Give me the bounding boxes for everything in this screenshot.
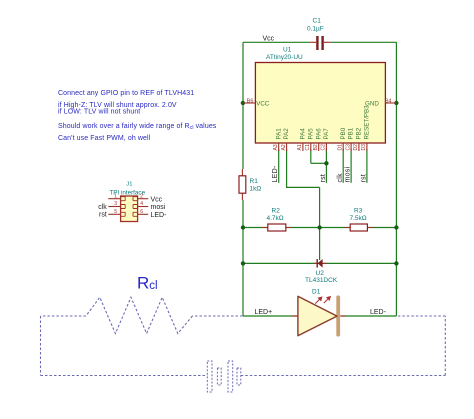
- D1 emission arrow 2: [324, 297, 331, 304]
- junction right R2 row: [394, 225, 398, 229]
- junction right TL431 row: [394, 261, 398, 265]
- wire top horizontal right of C1: [331, 41, 397, 43]
- svg-text:VCC: VCC: [256, 100, 270, 107]
- wire PA5 to PA7: [311, 162, 327, 164]
- J1 pin 1 socket: [121, 197, 125, 201]
- svg-text:PA6: PA6: [315, 128, 322, 140]
- svg-text:rst: rst: [320, 174, 327, 183]
- svg-text:Should work over a fairly wide: Should work over a fairly wide range of …: [58, 123, 217, 131]
- svg-text:clk: clk: [337, 173, 344, 183]
- wire PA5 down: [310, 149, 312, 163]
- svg-text:C1: C1: [305, 144, 311, 151]
- svg-text:PA5: PA5: [307, 128, 314, 140]
- wire left rail upper: [242, 42, 244, 169]
- svg-text:RESET/PB3: RESET/PB3: [364, 105, 371, 140]
- wire PB0 stub net clk: [342, 149, 344, 183]
- svg-text:LED-: LED-: [370, 309, 387, 316]
- dashed wire Rcl to left corner: [41, 315, 86, 317]
- svg-text:clk: clk: [98, 204, 107, 211]
- J1 pin 5 socket: [121, 212, 125, 216]
- svg-text:5: 5: [114, 209, 117, 215]
- J1 pin 6 stub: [138, 213, 149, 215]
- J1 pin 6 socket: [133, 212, 137, 216]
- svg-text:rst: rst: [360, 174, 367, 183]
- wire right rail: [395, 42, 397, 316]
- svg-text:LED-: LED-: [151, 212, 168, 219]
- junction GND pin: [394, 101, 398, 105]
- resistor R2: [262, 224, 292, 231]
- dashed wire to LED- rail: [396, 315, 445, 317]
- svg-text:4: 4: [140, 201, 143, 207]
- svg-text:C1: C1: [313, 18, 322, 25]
- svg-text:PA4: PA4: [300, 128, 307, 140]
- wire LED+ row: [243, 315, 298, 317]
- svg-text:D1: D1: [312, 289, 321, 296]
- svg-text:0.1µF: 0.1µF: [307, 26, 324, 33]
- wire Vcc top horizontal left of C1: [243, 41, 309, 43]
- svg-text:C2: C2: [321, 144, 327, 151]
- svg-text:PB2: PB2: [356, 127, 363, 139]
- svg-text:1kΩ: 1kΩ: [250, 186, 262, 193]
- svg-text:A2: A2: [281, 144, 287, 150]
- svg-text:B2: B2: [313, 144, 319, 150]
- junction left R2 row: [241, 225, 245, 229]
- svg-text:if LOW: TLV will not shunt: if LOW: TLV will not shunt: [58, 109, 140, 116]
- svg-text:PB0: PB0: [340, 127, 347, 139]
- svg-text:PA7: PA7: [323, 128, 330, 140]
- wire TL431 REF vertical: [319, 187, 321, 260]
- resistor R1: [239, 169, 246, 200]
- J1 pin 1 stub: [108, 198, 120, 200]
- svg-text:R1: R1: [250, 178, 259, 185]
- svg-text:C3: C3: [345, 144, 351, 151]
- junction REF R2 row: [317, 225, 321, 229]
- svg-text:6: 6: [140, 209, 143, 215]
- svg-text:LED+: LED+: [255, 309, 273, 316]
- battery BT1 dashed: [207, 361, 241, 392]
- D1 emission arrow 1: [315, 297, 322, 304]
- resistor R3: [345, 224, 374, 231]
- dashed wire left leg down: [40, 316, 42, 376]
- J1 pin 2 socket: [133, 197, 137, 201]
- svg-text:B4: B4: [385, 98, 392, 104]
- dashed wire bottom leg to battery: [41, 375, 208, 377]
- wire TL431 row: [243, 262, 396, 264]
- svg-text:R2: R2: [272, 208, 281, 215]
- svg-text:ATtiny20-UU: ATtiny20-UU: [266, 54, 303, 61]
- wire PB3 stub net rst: [366, 149, 368, 183]
- svg-text:7.5kΩ: 7.5kΩ: [350, 215, 367, 222]
- U1 pin VCC stub: [243, 102, 256, 104]
- svg-text:Can't use Fast PWM, oh well: Can't use Fast PWM, oh well: [58, 135, 151, 142]
- dashed wire right leg up: [444, 316, 446, 376]
- connector J1 body: [121, 196, 138, 222]
- svg-text:R3: R3: [354, 208, 363, 215]
- shunt regulator U2 TL431: [314, 259, 327, 268]
- svg-text:D3: D3: [361, 144, 367, 151]
- capacitor C1: [309, 36, 330, 50]
- svg-text:mosi: mosi: [345, 166, 352, 182]
- LED D1: [292, 296, 347, 337]
- wire left rail lower: [242, 200, 244, 316]
- svg-text:PB1: PB1: [348, 127, 355, 139]
- J1 pin 2 stub: [138, 198, 149, 200]
- wire PA1 stub net LED-: [278, 149, 280, 183]
- svg-text:PA1: PA1: [275, 128, 282, 140]
- svg-text:Connect any GPIO pin to REF of: Connect any GPIO pin to REF of TLVH431: [58, 90, 194, 97]
- svg-text:U2: U2: [316, 270, 325, 277]
- svg-text:Vcc: Vcc: [263, 36, 275, 43]
- svg-text:D1: D1: [337, 144, 343, 151]
- wire LED- row: [341, 315, 397, 317]
- svg-text:4.7kΩ: 4.7kΩ: [267, 215, 284, 222]
- svg-text:D2: D2: [353, 144, 359, 151]
- U1 pin GND stub: [385, 102, 396, 104]
- dashed wire battery to right corner: [241, 375, 445, 377]
- svg-text:J1: J1: [126, 182, 132, 188]
- wire PB1 stub net mosi: [350, 149, 352, 183]
- svg-text:1: 1: [114, 193, 117, 199]
- svg-text:2: 2: [140, 193, 143, 199]
- svg-text:B6: B6: [247, 98, 254, 104]
- op-amp U1 ATtiny20 body: [255, 63, 385, 144]
- J1 pin 4 socket: [133, 205, 137, 209]
- svg-text:3: 3: [114, 201, 117, 207]
- junction VCC pin: [241, 101, 245, 105]
- wire R2 R3 row: [243, 227, 396, 229]
- dashed wire LED+ to Rcl: [192, 315, 242, 317]
- svg-text:TL431DCK: TL431DCK: [305, 277, 338, 284]
- svg-text:LED-: LED-: [272, 165, 279, 183]
- resistor Rcl zigzag dashed: [86, 297, 192, 333]
- svg-text:A3: A3: [273, 144, 279, 150]
- svg-text:A1: A1: [297, 144, 303, 150]
- U1 bottom pin stubs: [279, 143, 367, 151]
- svg-text:Vcc: Vcc: [151, 196, 163, 203]
- wire PA7 stub net rst: [325, 149, 327, 183]
- svg-text:mosi: mosi: [151, 204, 166, 211]
- J1 pin 3 stub: [108, 206, 120, 208]
- svg-text:U1: U1: [283, 47, 292, 54]
- J1 pin 3 socket: [121, 205, 125, 209]
- svg-text:rst: rst: [99, 212, 107, 219]
- J1 pin 4 stub: [138, 206, 149, 208]
- junction left TL431 row: [241, 261, 245, 265]
- wire PA2 to REF node: [287, 149, 320, 187]
- junction PA5 PA7: [324, 161, 328, 165]
- svg-text:Rcl: Rcl: [137, 274, 158, 293]
- svg-text:PA2: PA2: [283, 128, 290, 140]
- J1 pin 5 stub: [108, 213, 120, 215]
